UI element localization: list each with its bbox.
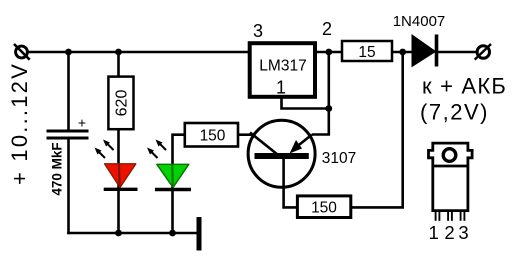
wire U1 out to R3	[315, 51, 342, 54]
node U1 output	[325, 49, 332, 56]
wire capacitor bottom	[67, 138, 70, 234]
node capacitor tap	[65, 49, 72, 56]
svg-text:1: 1	[428, 222, 438, 243]
package pin numbers 1 2 3	[428, 222, 468, 243]
svg-text:15: 15	[358, 44, 375, 61]
wire output node down	[327, 52, 330, 109]
node resistor 620 tap	[115, 49, 122, 56]
package mounting hole	[443, 149, 456, 162]
transistor Q1 3107	[248, 120, 315, 187]
svg-text:150: 150	[200, 128, 226, 145]
resistor R4 150 (emitter)	[297, 196, 350, 218]
svg-text:3: 3	[253, 21, 263, 41]
svg-text:620: 620	[114, 90, 131, 117]
value label 470 MkF	[50, 142, 65, 195]
svg-text:+: +	[78, 115, 86, 131]
svg-text:LM317: LM317	[259, 58, 306, 75]
capacitor C1 470 MkF	[47, 115, 89, 139]
package TO-220 outline	[429, 143, 473, 211]
wire top rail left	[28, 51, 249, 54]
node adj junction	[325, 105, 332, 112]
svg-text:к + АКБ: к + АКБ	[422, 74, 507, 99]
op-amp regulator U1 LM317	[250, 43, 315, 97]
wire R4 to output node	[351, 52, 403, 207]
svg-text:1N4007: 1N4007	[393, 13, 446, 30]
svg-text:(7,2V): (7,2V)	[420, 100, 489, 125]
svg-text:2: 2	[444, 222, 454, 243]
wire U1 adj pin 1	[282, 97, 329, 109]
node LED2 cathode to rail	[169, 230, 176, 237]
LED1 red	[104, 164, 138, 190]
wire diode to output terminal	[437, 51, 477, 54]
terminal input (left)	[14, 44, 30, 60]
LED2 green	[155, 164, 191, 189]
svg-text:3: 3	[458, 222, 468, 243]
wire capacitor top	[67, 52, 70, 131]
wire transistor collector down	[284, 159, 298, 207]
svg-text:150: 150	[311, 200, 337, 217]
ground	[197, 217, 202, 251]
node diode anode	[399, 49, 406, 56]
svg-text:+ 10...12V: + 10...12V	[7, 62, 32, 185]
wire R2 to transistor base	[238, 133, 253, 136]
resistor R3 15	[342, 41, 392, 61]
terminal output (right)	[475, 44, 491, 60]
svg-text:1: 1	[276, 78, 286, 98]
resistor R1 620	[108, 77, 133, 130]
svg-text:470 MkF: 470 MkF	[50, 142, 65, 195]
wire to transistor emitter	[312, 109, 329, 135]
LED1 light arrows	[95, 140, 114, 159]
resistor R2 150 (base)	[185, 123, 238, 147]
wire bottom rail	[67, 232, 197, 235]
wire R3 to diode	[392, 51, 413, 54]
package leads	[436, 211, 465, 221]
svg-text:3107: 3107	[322, 150, 356, 167]
wire resistor 620 to LED1	[117, 52, 120, 233]
diode VD1 1N4007	[412, 35, 437, 67]
label +10...12V	[7, 62, 32, 185]
svg-text:2: 2	[322, 19, 332, 39]
wire LED2 anode branch	[173, 135, 185, 233]
node LED1 cathode to rail	[115, 230, 122, 237]
LED2 light arrows	[147, 140, 166, 159]
